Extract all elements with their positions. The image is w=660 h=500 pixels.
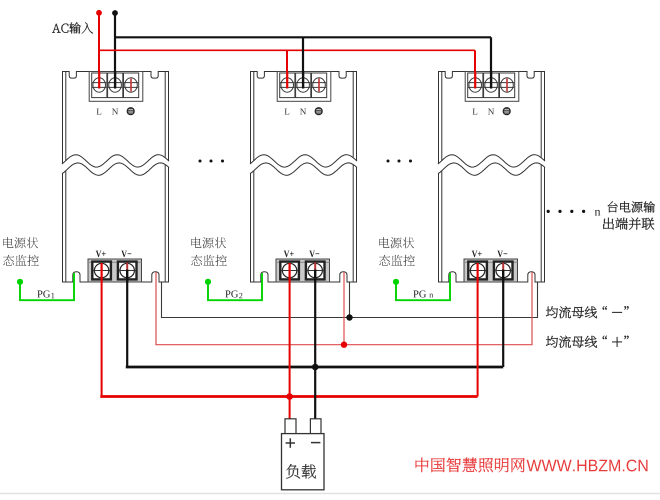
label load bbox=[286, 464, 316, 478]
label PG2 bbox=[225, 290, 242, 298]
label PG1 bbox=[37, 290, 54, 298]
node PGn terminal bbox=[393, 279, 399, 285]
wire PSU2 share pin minus bbox=[349, 283, 351, 318]
watermark chinese smart lighting site bbox=[416, 458, 525, 473]
wire AC L drop to PSU2 bbox=[286, 50, 288, 72]
wire AC N drop to PSU3 bbox=[490, 37, 492, 72]
junction on minus share bus bbox=[346, 314, 352, 320]
node PG2 terminal bbox=[205, 279, 211, 285]
wire current-share bus minus (thin black) bbox=[162, 283, 538, 318]
wire AC N drop to PSU2 bbox=[302, 37, 304, 72]
wire PSU1 V+ to positive bus bbox=[101, 282, 103, 397]
wire AC L drop to PSU1 bbox=[98, 13, 100, 72]
wire positive output bus (thick red) bbox=[100, 395, 477, 398]
label power status monitoring (PSU1) line1 bbox=[3, 237, 38, 248]
node AC input N (black) bbox=[112, 10, 118, 16]
power supply module PSU3 bbox=[438, 72, 545, 283]
wire PSU2 V+ down to load bbox=[289, 282, 291, 420]
label share bus minus bbox=[546, 306, 597, 318]
node AC input L (red) bbox=[96, 10, 102, 16]
wire PSU2 V- down to load bbox=[314, 282, 316, 420]
load box bbox=[282, 434, 325, 490]
wire PSU3 V+ to positive bus bbox=[477, 282, 479, 397]
label share bus plus bbox=[546, 336, 597, 348]
label plus terminal bbox=[286, 438, 295, 447]
label PGn bbox=[413, 290, 433, 297]
load terminal negative stub bbox=[310, 419, 321, 434]
wire PGn (green) bbox=[396, 273, 450, 300]
bottom hairline bbox=[0, 493, 660, 495]
label power status monitoring (PSU3) line2 bbox=[379, 255, 415, 266]
label: outputs in parallel (line 2) bbox=[603, 218, 654, 230]
junction PSU2 V+ on positive bus bbox=[286, 393, 293, 400]
label: n supplies outputs in parallel (line 1) bbox=[608, 201, 655, 212]
junction on plus share bus bbox=[341, 342, 347, 348]
label minus terminal bbox=[311, 442, 320, 444]
wire PSU1 V- to negative bus bbox=[126, 282, 128, 367]
wire PSU3 V- to negative bus bbox=[502, 282, 504, 367]
label AC input bbox=[52, 22, 93, 33]
label n (number of supplies) bbox=[595, 210, 601, 216]
wire AC N drop to PSU1 bbox=[114, 13, 116, 72]
wire PSU2 share pin plus bbox=[343, 272, 345, 345]
ellipsis right of PSU3 bbox=[547, 210, 586, 213]
label power status monitoring (PSU2) line1 bbox=[191, 237, 226, 248]
ellipsis between PSU2 and PSU3 bbox=[387, 160, 413, 163]
wire PG1 (green) bbox=[20, 273, 74, 300]
load terminal positive stub bbox=[285, 419, 296, 434]
power supply module PSU1 bbox=[62, 72, 169, 283]
label power status monitoring (PSU3) line1 bbox=[379, 237, 414, 248]
node PG1 terminal bbox=[17, 279, 23, 285]
wire current-share bus plus (thin red) bbox=[156, 272, 532, 345]
label power status monitoring (PSU1) line2 bbox=[3, 255, 39, 266]
junction PSU2 V- on negative bus bbox=[312, 364, 319, 371]
label power status monitoring (PSU2) line2 bbox=[191, 255, 227, 266]
wire PG2 (green) bbox=[208, 273, 262, 300]
wire negative output bus (thick black) bbox=[126, 366, 503, 369]
ellipsis between PSU1 and PSU2 bbox=[199, 160, 225, 163]
wire AC L drop to PSU3 bbox=[474, 50, 476, 72]
wire AC L bus bbox=[99, 49, 475, 51]
power supply module PSU2 bbox=[250, 72, 357, 283]
wire AC N bus bbox=[115, 36, 491, 38]
